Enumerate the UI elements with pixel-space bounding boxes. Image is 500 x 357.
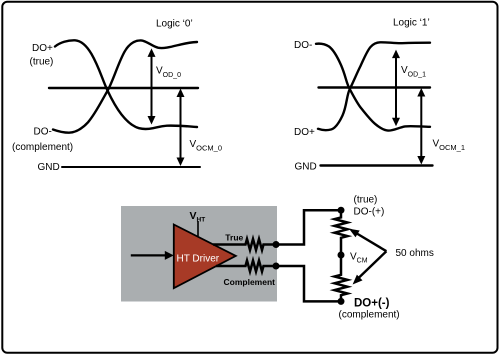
svg-text:(complement): (complement): [339, 310, 400, 321]
svg-text:DO-: DO-: [34, 127, 52, 138]
svg-text:True: True: [225, 233, 243, 243]
svg-text:DO-(+): DO-(+): [354, 207, 385, 218]
svg-text:Complement: Complement: [224, 277, 276, 287]
svg-text:50 ohms: 50 ohms: [396, 248, 434, 259]
svg-text:DO+: DO+: [32, 43, 53, 54]
svg-text:Logic ‘1’: Logic ‘1’: [393, 18, 430, 29]
svg-text:GND: GND: [295, 162, 317, 173]
svg-text:(true): (true): [30, 57, 54, 68]
svg-text:GND: GND: [38, 162, 60, 173]
svg-text:(true): (true): [354, 195, 378, 206]
svg-text:DO+: DO+: [294, 127, 315, 138]
svg-text:DO-: DO-: [294, 40, 312, 51]
svg-text:DO+(-): DO+(-): [354, 298, 390, 310]
svg-text:HT Driver: HT Driver: [177, 254, 220, 265]
svg-text:(complement): (complement): [12, 142, 73, 153]
svg-text:Logic ‘0’: Logic ‘0’: [156, 19, 193, 30]
